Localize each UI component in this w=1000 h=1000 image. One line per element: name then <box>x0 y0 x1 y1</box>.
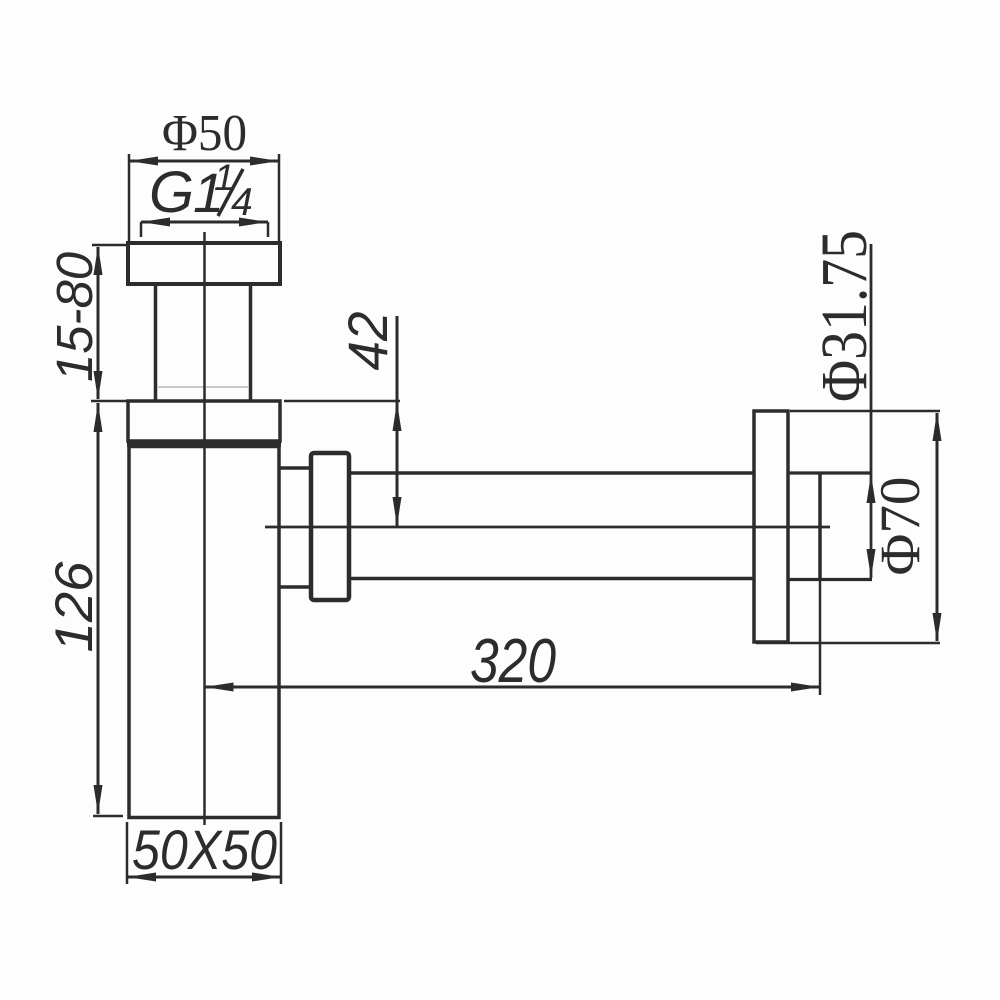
arrowhead G left <box>141 218 170 227</box>
dimension line 126 <box>97 403 100 814</box>
dimension line 320 <box>205 686 821 689</box>
hub bottom line <box>788 578 872 581</box>
dimension line 15-80 <box>97 247 100 399</box>
arrowhead D70 down <box>933 613 942 642</box>
svg-text:Φ31.75: Φ31.75 <box>808 230 881 402</box>
svg-text:42: 42 <box>336 312 399 371</box>
arrowhead 42 up <box>393 402 402 431</box>
centre line horizontal <box>265 526 830 529</box>
outlet pipe bottom <box>349 577 753 581</box>
arrowhead D31.75 down <box>867 549 876 578</box>
svg-text:Φ70: Φ70 <box>868 477 932 576</box>
arrowhead 320 left <box>205 683 234 692</box>
extension line D70 bottom <box>756 642 940 645</box>
dimension line 42 <box>396 316 399 527</box>
arrowhead D50 right <box>250 157 279 166</box>
arrowhead 50X50 right <box>252 873 281 882</box>
extension line D70 top <box>790 410 940 413</box>
extension tick shared at flange top <box>91 400 127 403</box>
arrowhead D70 up <box>933 412 942 441</box>
svg-text:G: G <box>149 160 194 225</box>
arrowhead 126 up <box>94 403 103 432</box>
inlet tube left wall <box>154 284 158 401</box>
outlet pipe top <box>349 471 753 475</box>
hub top line <box>788 471 872 474</box>
dimension line D70 <box>936 413 939 641</box>
dimension line 50X50 <box>127 876 281 879</box>
thick seam under flange <box>127 441 281 447</box>
arrowhead G right <box>239 218 268 227</box>
label G 1-1/4 : fraction slash <box>218 169 243 216</box>
arrowhead 126 down <box>94 785 103 814</box>
inlet tube right wall <box>249 284 253 401</box>
extension tick bottom of 126 <box>93 815 123 818</box>
arrowhead D50 left <box>129 157 158 166</box>
extension tick G left <box>140 222 143 237</box>
hub right edge <box>818 473 822 580</box>
arrowhead 50X50 left <box>127 873 156 882</box>
extension line flange-top right (for 42) <box>284 400 400 403</box>
arrowhead 42 down <box>393 497 402 526</box>
faint joint line in tube <box>157 386 249 388</box>
svg-text:4: 4 <box>231 181 253 224</box>
arrowhead 15-80 down <box>94 371 103 400</box>
extension line D50 right <box>278 154 281 243</box>
svg-text:320: 320 <box>470 627 556 696</box>
extension line 320 right <box>819 580 822 695</box>
svg-text:15-80: 15-80 <box>46 252 103 382</box>
dimension line D50 <box>129 160 279 163</box>
extension line 50X50 left <box>126 822 129 884</box>
wall flange plate <box>754 411 788 642</box>
arrowhead D31.75 up <box>867 474 876 503</box>
centre line vertical <box>203 232 206 825</box>
trap body <box>129 447 279 818</box>
arrowhead 15-80 up <box>94 246 103 275</box>
dimension line G1-1/4 <box>141 221 268 224</box>
outlet stub bottom <box>279 585 311 589</box>
extension tick G right <box>267 222 270 237</box>
top flange (inlet rosette) <box>128 243 280 284</box>
svg-text:Φ50: Φ50 <box>162 105 247 162</box>
dimension line D31.75 <box>870 244 873 578</box>
body top flange <box>128 401 280 441</box>
svg-text:126: 126 <box>45 561 104 653</box>
extension line D50 left <box>128 154 131 243</box>
outlet stub top <box>279 466 311 470</box>
compression nut <box>311 453 349 600</box>
arrowhead 320 right <box>791 683 820 692</box>
svg-text:50X50: 50X50 <box>132 818 277 881</box>
extension tick top of 15-80 <box>92 244 127 247</box>
extension line 50X50 right <box>280 822 283 884</box>
